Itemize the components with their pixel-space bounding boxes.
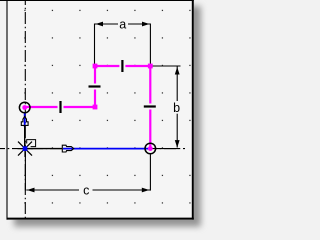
dimension a: dimension line right part: [128, 23, 150, 25]
grid dots: [24, 10, 190, 204]
endpoint dot at upper-left corner: [93, 64, 98, 69]
white halo for tick on middle vertical segment: [88, 84, 102, 90]
horizontal-constraint tick on lower horizontal segment: [59, 101, 61, 113]
dimension b: dimension line upper part: [176, 67, 178, 102]
sheet border top: [0, 0, 194, 2]
dimension b: top extension line: [152, 65, 181, 67]
magenta endpoint dot in right circle: [148, 146, 153, 151]
white halo for tick on top horizontal segment: [119, 59, 125, 73]
dimension c: dimension line right part: [93, 189, 151, 191]
endpoint dot at inner corner: [93, 105, 98, 110]
magenta endpoint dot in left circle: [22, 105, 27, 110]
sketch line: middle vertical magenta segment: [94, 66, 96, 107]
sketch line: lower horizontal magenta segment: [25, 106, 95, 108]
svg-text:a: a: [119, 18, 126, 32]
connect-constraint circle at right endpoint: [145, 143, 156, 154]
right-angle square symbol at origin: [27, 140, 36, 147]
origin blue center dot: [23, 146, 28, 151]
x-axis black segment from origin: [25, 148, 62, 150]
sheet border left: [6, 0, 8, 220]
vertical-constraint tick on right vertical segment: [144, 105, 156, 107]
page background: [0, 0, 210, 234]
white halo for tick on right vertical segment: [143, 104, 157, 110]
dimension a: right extension line: [149, 24, 151, 65]
dimension c: left arrowhead: [27, 188, 35, 193]
dimension c: right extension line: [149, 155, 151, 191]
dimension a: left extension line: [94, 24, 96, 65]
vertical centerline (dash-dot construction line): [24, 0, 26, 218]
horizontal centerline (dash-dot construction line): [0, 148, 185, 150]
sketch line: blue bottom line from origin to right endpoint: [63, 148, 150, 150]
y-axis blue segment below circle: [24, 112, 26, 127]
y-axis open arrowhead: [21, 116, 28, 125]
endpoint dot at upper-right corner: [148, 64, 153, 69]
sheet border right: [192, 0, 194, 220]
sketch line: right vertical magenta segment: [149, 66, 151, 149]
x-axis open arrowhead: [62, 145, 74, 152]
dimension b: dimension line lower part: [176, 114, 178, 148]
dimension a: dimension line left part: [95, 23, 119, 25]
dimension c: dimension line left part: [26, 189, 79, 191]
svg-text:b: b: [173, 101, 180, 115]
dimension b: top arrowhead: [175, 67, 180, 75]
dimension a: right arrowhead: [142, 22, 150, 27]
sketch line: top horizontal magenta segment: [95, 65, 150, 67]
white halo for tick on lower horizontal segment: [58, 100, 64, 114]
dimension b: bottom arrowhead: [175, 140, 180, 148]
vertical-constraint tick on middle vertical segment: [89, 85, 101, 87]
svg-text:c: c: [83, 184, 89, 198]
horizontal-constraint tick on top horizontal segment: [121, 60, 123, 72]
origin star rays: [18, 141, 34, 158]
sheet border bottom: [7, 218, 194, 220]
dimension c: left extension line (over centerline): [24, 152, 26, 191]
connect-constraint circle at left endpoint: [19, 102, 30, 113]
y-axis black segment to origin: [24, 126, 26, 149]
dimension a: left arrowhead: [96, 22, 104, 27]
dimension b: bottom extension line: [156, 148, 179, 150]
dimension c: right arrowhead: [142, 188, 150, 193]
drawing sheet frame with drop shadow: [7, 0, 194, 220]
